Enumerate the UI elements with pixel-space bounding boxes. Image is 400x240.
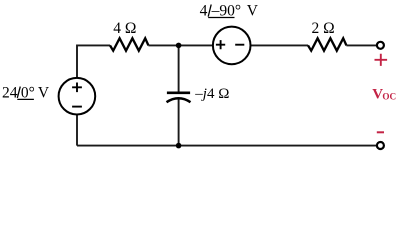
wire: left source bottom to bottom rail <box>76 114 78 145</box>
wire: capacitor branch lower <box>178 98 180 145</box>
wire: top source right to 2-ohm resistor <box>251 44 309 46</box>
svg-text:24: 24 <box>2 85 18 102</box>
svg-text:OC: OC <box>382 91 396 101</box>
angle underline of 4 label <box>208 17 234 19</box>
svg-text:2 Ω: 2 Ω <box>312 20 335 37</box>
capacitor C bottom curved plate <box>167 98 191 102</box>
svg-text:V: V <box>247 2 259 19</box>
svg-text:4 Ω: 4 Ω <box>113 20 136 37</box>
red plus sign <box>375 54 388 66</box>
node dot bottom <box>176 143 182 149</box>
V2 minus sign <box>235 44 244 46</box>
voltage source V1 circle (24 V) <box>59 78 96 115</box>
node dot top <box>176 43 182 49</box>
wire: 2-ohm resistor to top terminal <box>346 44 376 46</box>
voltage source V2 circle (4 V, top) <box>213 27 251 65</box>
angle slash of 24 label <box>17 87 20 98</box>
wire: 4-ohm resistor right lead to top source left <box>148 44 213 46</box>
svg-text:V: V <box>38 85 50 102</box>
terminal top (open circle) <box>377 42 384 49</box>
V1 plus sign <box>72 83 82 93</box>
wire top-left: from left source up and across <box>77 45 110 78</box>
V1 minus sign <box>72 106 82 108</box>
resistor 2-ohm zigzag <box>308 38 346 50</box>
angle underline of 24 label <box>17 98 34 100</box>
angle slash of 4 label <box>208 5 211 17</box>
capacitor C top plate <box>167 92 190 95</box>
svg-text:–90°: –90° <box>211 2 241 19</box>
svg-text:–j4 Ω: –j4 Ω <box>194 86 229 102</box>
wire: capacitor branch upper <box>178 45 180 91</box>
svg-text:4: 4 <box>200 2 208 19</box>
red minus sign <box>377 131 384 133</box>
terminal bottom (open circle) <box>377 142 384 149</box>
wire: bottom rail <box>77 145 377 147</box>
resistor R 4-ohm zigzag <box>110 38 148 50</box>
V2 plus sign <box>216 40 225 49</box>
